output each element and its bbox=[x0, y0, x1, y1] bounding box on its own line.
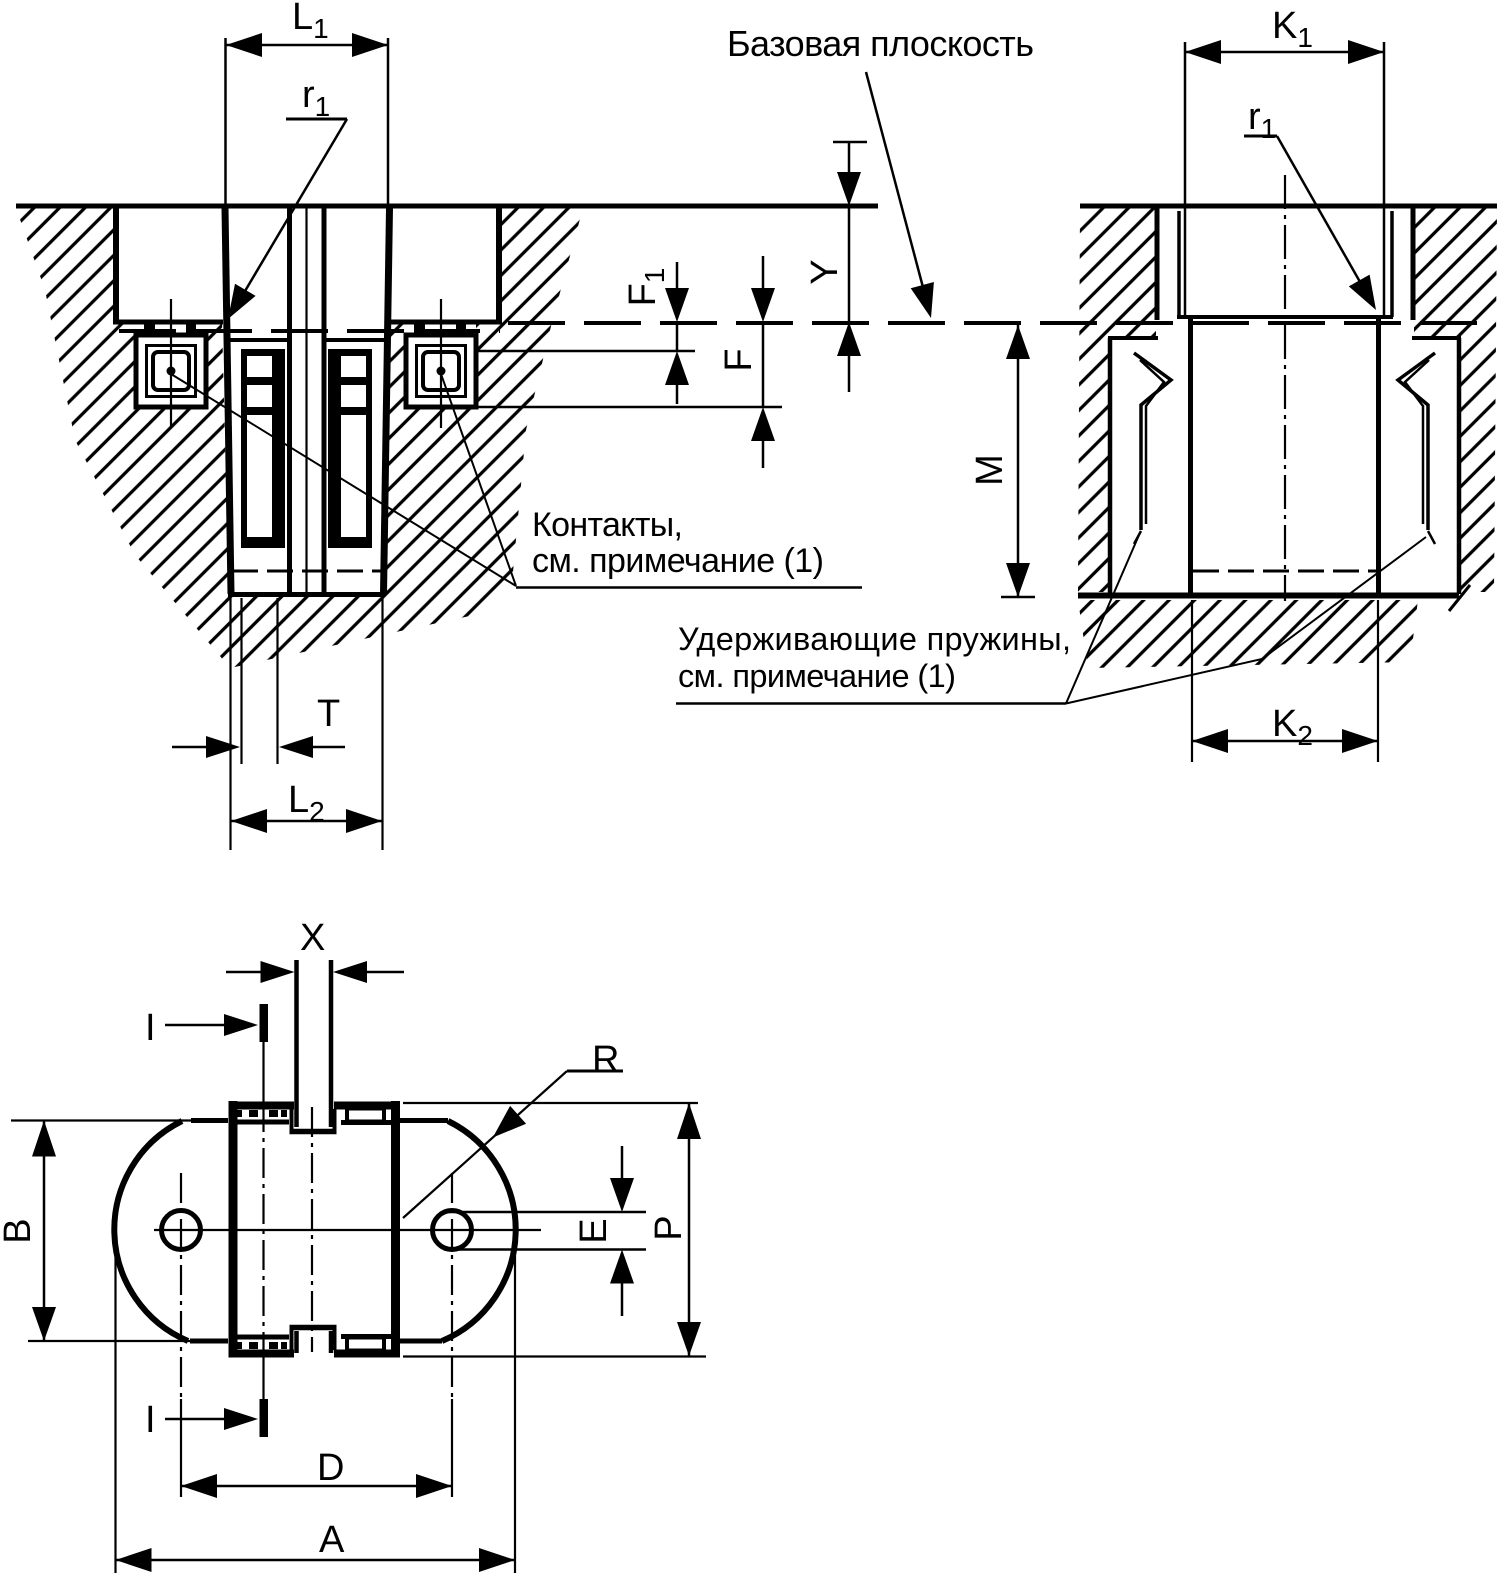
plan rect left wall bbox=[229, 1101, 238, 1357]
lower wall right bbox=[1457, 338, 1462, 594]
X slot projection walls bbox=[294, 960, 299, 1127]
surface line left figure bbox=[16, 204, 878, 209]
left hole bbox=[162, 1211, 201, 1250]
right hole center line bbox=[451, 1173, 453, 1399]
dimension M bbox=[1001, 325, 1035, 597]
top notch dashes bbox=[236, 1110, 287, 1117]
dimension A bbox=[116, 1214, 516, 1573]
bottom right window box bbox=[347, 1338, 384, 1351]
leader springs bbox=[1066, 535, 1426, 704]
top right window box bbox=[347, 1109, 384, 1122]
top inner line right bbox=[341, 1120, 391, 1125]
tube wall right bbox=[1376, 319, 1381, 594]
recess floor right segment bbox=[388, 320, 502, 325]
plan vertical center line bbox=[311, 1107, 313, 1352]
bore wall left bbox=[1155, 206, 1160, 320]
cap center line bbox=[305, 208, 307, 592]
dimension F1 bbox=[665, 262, 689, 404]
K2 extension right bbox=[1377, 600, 1379, 762]
base plane dashed line bbox=[508, 321, 1492, 325]
svg-text:F: F bbox=[718, 348, 760, 371]
leader base plane bbox=[866, 72, 934, 318]
dimension P bbox=[403, 1103, 706, 1357]
svg-text:Контакты,: Контакты, bbox=[532, 506, 683, 544]
plan rect bottom edge bbox=[229, 1350, 295, 1358]
svg-text:Y: Y bbox=[804, 259, 846, 284]
left retaining spring bbox=[1134, 353, 1171, 544]
dimension B bbox=[11, 1121, 191, 1342]
svg-text:M: M bbox=[969, 454, 1011, 486]
recess right wall bbox=[496, 206, 502, 324]
svg-text:T: T bbox=[317, 693, 340, 735]
surface line right figure bbox=[1080, 204, 1497, 209]
cap inner dashed line bbox=[232, 570, 381, 573]
dimension D bbox=[181, 1399, 452, 1498]
break tick bottom line bbox=[1449, 585, 1470, 611]
oval arc right bbox=[442, 1121, 516, 1341]
bottom notch dashes bbox=[236, 1342, 287, 1349]
right pin channel bbox=[328, 349, 372, 548]
recess floor left segment bbox=[113, 320, 223, 325]
hatch material right figure bottom band bbox=[1078, 600, 1418, 668]
cap slot wall left bbox=[287, 208, 292, 592]
svg-text:I: I bbox=[145, 1399, 156, 1441]
section line I-I bbox=[165, 1004, 268, 1437]
K2 extension left bbox=[1191, 600, 1193, 762]
svg-text:D: D bbox=[317, 1447, 344, 1489]
right hole bbox=[433, 1211, 472, 1250]
left hole center line bbox=[180, 1173, 182, 1399]
plan rect top edge bbox=[229, 1102, 295, 1110]
hatch material left figure bbox=[16, 208, 583, 668]
svg-text:I: I bbox=[145, 1007, 156, 1049]
svg-text:Базовая плоскость: Базовая плоскость bbox=[727, 23, 1034, 64]
tube wall left bbox=[1188, 319, 1193, 594]
step line right bbox=[1412, 336, 1461, 340]
svg-text:A: A bbox=[319, 1519, 345, 1561]
hatch material right figure left block bbox=[1078, 208, 1156, 592]
leader R bbox=[403, 1071, 623, 1218]
svg-text:см. примечание (1): см. примечание (1) bbox=[678, 658, 956, 694]
cap top face left segment bbox=[228, 338, 289, 342]
K1 extension left bbox=[1184, 42, 1187, 316]
top inner line left bbox=[233, 1120, 289, 1125]
cap top face right segment bbox=[324, 338, 387, 342]
cap right wall bbox=[384, 208, 390, 594]
leader contacts bbox=[171, 374, 862, 588]
plan rect right wall bbox=[391, 1101, 400, 1357]
bottom inner line right bbox=[341, 1334, 391, 1339]
center line right figure bbox=[1284, 175, 1286, 601]
dimension K1 bbox=[1185, 40, 1384, 64]
svg-text:R: R bbox=[592, 1039, 619, 1081]
sleeve inner line left bbox=[1177, 211, 1181, 317]
svg-text:E: E bbox=[573, 1218, 615, 1243]
left contact bbox=[136, 299, 206, 428]
left pin channel bbox=[241, 349, 285, 548]
svg-text:B: B bbox=[0, 1218, 39, 1243]
X slot step bbox=[290, 1129, 337, 1135]
plan horizontal center line bbox=[154, 1229, 541, 1231]
leader r1 right bbox=[1244, 136, 1376, 310]
bottom surface line bbox=[1078, 593, 1459, 599]
underline springs note bbox=[676, 702, 1066, 705]
contact bottom reference line F bbox=[478, 406, 782, 409]
oval flat segments bbox=[190, 1121, 448, 1342]
svg-text:X: X bbox=[300, 917, 325, 959]
bottom slot step bbox=[290, 1325, 337, 1331]
dimension T bbox=[172, 598, 345, 764]
svg-text:Удерживающие пружины,: Удерживающие пружины, bbox=[678, 621, 1071, 657]
cap left wall bbox=[225, 208, 231, 594]
cap slot wall right bbox=[322, 208, 327, 592]
tube inner dashed line bbox=[1193, 570, 1377, 573]
cap bottom face bbox=[228, 592, 384, 597]
lower wall left bbox=[1108, 338, 1113, 594]
dimension L2 bbox=[231, 598, 383, 850]
K1 extension right bbox=[1383, 42, 1386, 316]
sleeve inner line right bbox=[1390, 211, 1394, 317]
step line left bbox=[1108, 336, 1158, 340]
bore wall right bbox=[1411, 206, 1416, 320]
dimension X bbox=[226, 961, 404, 983]
dimension E bbox=[444, 1146, 646, 1316]
hatch material right figure right block bbox=[1414, 208, 1497, 592]
oval arc left bbox=[114, 1121, 188, 1341]
leader r1 left bbox=[228, 119, 347, 319]
right contact bbox=[406, 299, 476, 428]
contact top reference line F1 bbox=[478, 350, 695, 353]
seat dashed line in recess bbox=[119, 329, 500, 333]
right retaining spring bbox=[1398, 353, 1435, 544]
dimension Y bbox=[833, 142, 867, 392]
recess left wall bbox=[113, 206, 119, 324]
dimension F bbox=[751, 256, 775, 468]
bottom inner line left bbox=[233, 1335, 289, 1340]
dimension K2 bbox=[1192, 729, 1378, 753]
tube top line bbox=[1177, 315, 1393, 319]
svg-text:P: P bbox=[648, 1215, 690, 1240]
dimension L1 bbox=[226, 33, 389, 204]
svg-text:см. примечание (1): см. примечание (1) bbox=[532, 542, 824, 580]
